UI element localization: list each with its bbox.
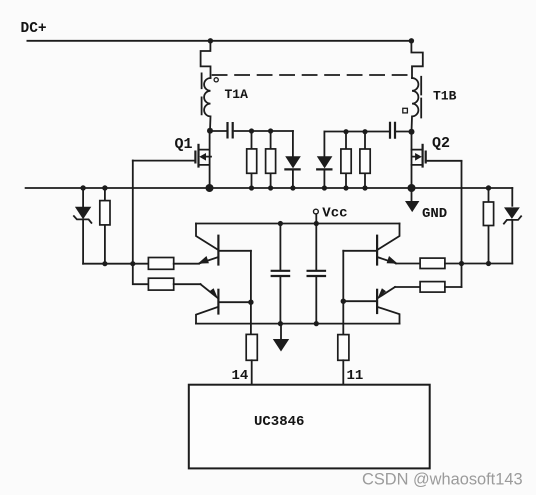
label Vcc	[322, 206, 347, 222]
transformer T1A winding	[204, 78, 210, 130]
node: rail / T1A junction	[208, 38, 213, 43]
node: gate line / R7	[459, 261, 464, 266]
svg-text:DC+: DC+	[21, 21, 47, 37]
resistor R7 (right top emitter)	[396, 258, 462, 268]
wire: left base line to pin 14	[250, 251, 252, 335]
svg-text:Q2: Q2	[432, 135, 450, 152]
wire: right bus to clamp	[462, 263, 513, 265]
capacitor C4	[390, 123, 395, 138]
ground arrow GND	[405, 188, 419, 212]
label pin 14	[232, 368, 249, 384]
wire: driver bottom bus	[196, 323, 400, 325]
transformer T1B winding	[412, 78, 419, 132]
transformer core (dashed)	[213, 74, 410, 76]
svg-text:14: 14	[232, 368, 249, 384]
wire: right base line to pin 11	[342, 251, 344, 335]
transformer T1A parallel bar	[201, 73, 203, 114]
node: rail/R2 bottom	[249, 185, 254, 190]
node: rail / T1B junction	[409, 38, 414, 43]
resistor R11 (pin 14)	[246, 334, 257, 384]
resistor R1	[100, 188, 110, 264]
svg-text:UC3846: UC3846	[254, 414, 304, 430]
node: rail/R3 bottom	[268, 185, 273, 190]
wire: Q1 drain to snubber row	[210, 130, 293, 132]
wire: source/mid rail	[26, 187, 513, 189]
svg-text:Q1: Q1	[175, 136, 193, 153]
zener ZD1	[74, 188, 92, 264]
resistor R9	[341, 132, 351, 188]
transistor TL1 (NPN, left top)	[196, 224, 251, 265]
transistor TL2 (PNP, left bottom)	[196, 284, 251, 323]
zener ZD2	[504, 188, 521, 264]
wire: zener/R1 bottom bus	[83, 263, 148, 265]
transformer T1A phase dot	[214, 78, 218, 82]
capacitor C2	[272, 224, 289, 324]
diode D2	[317, 132, 333, 188]
resistor R5	[148, 258, 199, 270]
ground arrow (driver bus)	[273, 324, 289, 352]
watermark	[362, 471, 523, 489]
node: R1 / bus	[102, 261, 107, 266]
resistor R6	[148, 278, 200, 290]
node: rail/R9	[343, 185, 348, 190]
node: Vcc/C2	[278, 221, 283, 226]
label Q1	[175, 136, 193, 153]
node: Q1 source on rail	[206, 184, 214, 192]
label T1B	[433, 89, 457, 104]
label DC+	[21, 21, 47, 37]
label GND	[422, 206, 447, 222]
node: rail/R1	[102, 185, 107, 190]
wire: Vcc rail	[196, 223, 400, 225]
node: Q1 drain	[207, 128, 213, 134]
node: R2 top	[249, 128, 254, 133]
label pin 11	[347, 368, 364, 384]
transformer T1B phase dot	[403, 108, 408, 113]
svg-text:T1B: T1B	[433, 89, 457, 104]
node: rail/D2	[322, 185, 327, 190]
IC U1 UC3846 box	[189, 385, 430, 469]
node: bottom bus/C2	[278, 321, 283, 326]
svg-text:11: 11	[347, 368, 364, 384]
node: R4 bottom	[486, 261, 491, 266]
node: gate line / bus	[130, 261, 135, 266]
node: Q2 drain	[409, 129, 415, 135]
label UC3846	[254, 414, 304, 430]
transistor Q2 (N-MOSFET)	[412, 132, 426, 188]
node: R9 top	[343, 129, 348, 134]
resistor R10	[360, 132, 370, 188]
label Q2	[432, 135, 450, 152]
svg-text:CSDN @whaosoft143: CSDN @whaosoft143	[362, 471, 523, 489]
resistor R4	[483, 188, 493, 264]
resistor R12 (pin 11)	[338, 335, 349, 385]
node: Vcc stub joint	[314, 221, 319, 226]
node: rail/R10	[362, 185, 367, 190]
svg-text:GND: GND	[422, 206, 447, 222]
wire: Q1 gate lead	[133, 160, 196, 162]
capacitor C1	[228, 123, 233, 137]
node: R3 top	[268, 128, 273, 133]
label T1A	[225, 87, 249, 102]
node: rail/R4	[486, 185, 491, 190]
wire: DC+ top rail	[27, 40, 411, 42]
node: bottom bus/C3	[314, 321, 319, 326]
wire: Q2 drain to snubber row	[324, 131, 411, 133]
terminal: Vcc stub	[314, 209, 319, 223]
node: rail/ZD1	[80, 185, 85, 190]
transformer T1A primary lead (step jog)	[201, 41, 211, 78]
capacitor C3	[308, 224, 325, 324]
transistor TR1 (NPN, right top)	[343, 224, 399, 265]
node: right bases junction	[341, 299, 346, 304]
svg-text:T1A: T1A	[225, 87, 249, 102]
resistor R3	[266, 131, 276, 188]
resistor R8 (right bottom emitter)	[395, 282, 462, 293]
wire: Q2 gate vertical	[461, 161, 463, 287]
transistor TR2 (PNP, right bottom)	[343, 287, 399, 324]
node: Q2 source on rail	[408, 184, 416, 192]
resistor R2	[247, 131, 257, 188]
node: rail/D1 bottom	[290, 185, 295, 190]
svg-text:Vcc: Vcc	[322, 206, 347, 222]
transformer T1B parallel bar	[420, 77, 422, 118]
transistor Q1 (N-MOSFET)	[195, 131, 211, 188]
node: left bases junction	[248, 300, 253, 305]
transformer T1B primary lead (step jog)	[411, 41, 422, 78]
node: R10 top	[362, 129, 367, 134]
diode D1	[285, 131, 301, 188]
wire: Q2 gate lead	[426, 160, 462, 162]
wire: Q1 gate vertical	[133, 161, 149, 285]
